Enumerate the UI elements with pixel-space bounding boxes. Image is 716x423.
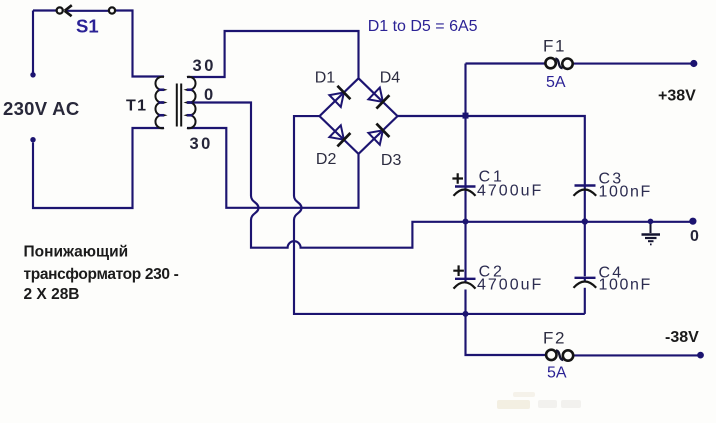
svg-text:100nF: 100nF bbox=[599, 184, 652, 201]
svg-text:T1: T1 bbox=[126, 98, 147, 115]
svg-text:0: 0 bbox=[690, 228, 699, 245]
svg-text:трансформатор 230 -: трансформатор 230 - bbox=[24, 266, 179, 283]
svg-text:D1 to D5 = 6A5: D1 to D5 = 6A5 bbox=[368, 18, 478, 35]
svg-text:-38V: -38V bbox=[665, 329, 699, 346]
svg-text:Понижающий: Понижающий bbox=[24, 243, 129, 260]
svg-text:F2: F2 bbox=[543, 329, 566, 348]
svg-text:D4: D4 bbox=[380, 70, 401, 87]
svg-text:S1: S1 bbox=[76, 15, 99, 36]
svg-text:4700uF: 4700uF bbox=[477, 277, 543, 294]
svg-text:0: 0 bbox=[204, 86, 213, 104]
svg-text:5A: 5A bbox=[546, 74, 566, 91]
svg-text:4700uF: 4700uF bbox=[477, 183, 543, 200]
svg-text:D2: D2 bbox=[316, 151, 337, 168]
svg-text:100nF: 100nF bbox=[599, 277, 652, 294]
svg-text:D1: D1 bbox=[315, 70, 336, 87]
svg-text:+38V: +38V bbox=[658, 88, 696, 105]
svg-text:230V AC: 230V AC bbox=[3, 98, 79, 119]
svg-text:D3: D3 bbox=[381, 152, 402, 169]
svg-text:30: 30 bbox=[190, 135, 213, 153]
svg-text:30: 30 bbox=[193, 57, 217, 75]
svg-text:5A: 5A bbox=[547, 365, 567, 382]
svg-text:2 X 28В: 2 X 28В bbox=[24, 286, 80, 303]
svg-text:F1: F1 bbox=[543, 37, 566, 56]
